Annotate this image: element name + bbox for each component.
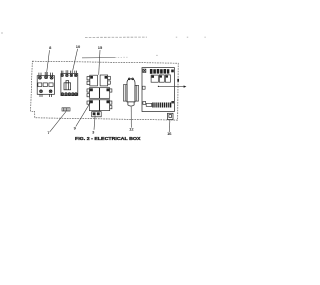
- overload relay (small hatched block): [62, 108, 70, 111]
- relay cluster block R3R: [100, 100, 112, 111]
- contactor C2 body: [61, 74, 78, 96]
- relay cluster block R1L: [87, 75, 98, 86]
- relay cluster block R2R: [100, 88, 112, 99]
- board bottom-left screw: [143, 102, 146, 105]
- leader to callout 9 (relay cluster lower): [76, 102, 91, 127]
- svg-text:FIG. 2 - ELECTRICAL BOX: FIG. 2 - ELECTRICAL BOX: [75, 136, 141, 141]
- cluster bottom wiring block: [92, 112, 102, 117]
- board corner screw TR: [171, 70, 174, 73]
- svg-text:15: 15: [98, 45, 103, 50]
- electrical box outline: [31, 61, 179, 120]
- relay cluster block R3L: [87, 100, 99, 111]
- board bottom terminal strip (comb): [152, 103, 171, 108]
- contactor C2 top stubs: [61, 70, 76, 73]
- contactor C1 bottom stubs: [40, 94, 52, 97]
- leader to callout 3 (cluster bottom block): [94, 116, 95, 130]
- faint page rule remnants top: [85, 36, 147, 38]
- leader to callout 8 (contactor C1): [46, 50, 49, 75]
- tick on box right edge: [177, 79, 179, 82]
- leader arrow to callout 1 (control board): [158, 85, 187, 87]
- relay cluster block R2L: [87, 88, 99, 99]
- contactor C1 body: [37, 76, 54, 95]
- svg-text:10: 10: [76, 44, 81, 49]
- capacitor bracket right flange: [135, 85, 139, 101]
- board relays row: [151, 75, 170, 82]
- board left edge connector: [142, 86, 145, 89]
- contactor C1 middle contact cells: [38, 83, 53, 87]
- contactor C1 bottom screws: [40, 90, 52, 93]
- contactor C2 coil element: [64, 81, 71, 90]
- leader to callout 15 (relay cluster): [99, 50, 100, 75]
- leader to callout 7 (overload relay): [50, 112, 66, 132]
- capacitor bracket left flange: [123, 85, 127, 102]
- board small relay bottom-left: [146, 103, 152, 106]
- control board outline: [142, 68, 174, 112]
- knockout square at box bottom edge: [168, 113, 174, 119]
- board bottom-right screw: [171, 101, 174, 103]
- contactor C1 top terminal stubs: [39, 72, 53, 76]
- capacitor body: [127, 78, 135, 106]
- contactor C2 top screws: [61, 74, 77, 77]
- relay cluster block R1R: [100, 75, 110, 86]
- contactor C2 bottom screws: [61, 93, 77, 96]
- leader to callout 10 (contactor C2): [73, 49, 78, 71]
- contactor C1 top screws: [38, 76, 53, 79]
- faint artifact line near board top: [82, 56, 115, 58]
- board corner screw TL: [143, 69, 146, 72]
- svg-text:16: 16: [167, 131, 172, 136]
- leader to callout 16 (knockout): [168, 120, 171, 132]
- svg-text:12: 12: [129, 127, 134, 132]
- leader to callout 12 (capacitor): [130, 107, 132, 128]
- board top terminal row: [150, 69, 169, 74]
